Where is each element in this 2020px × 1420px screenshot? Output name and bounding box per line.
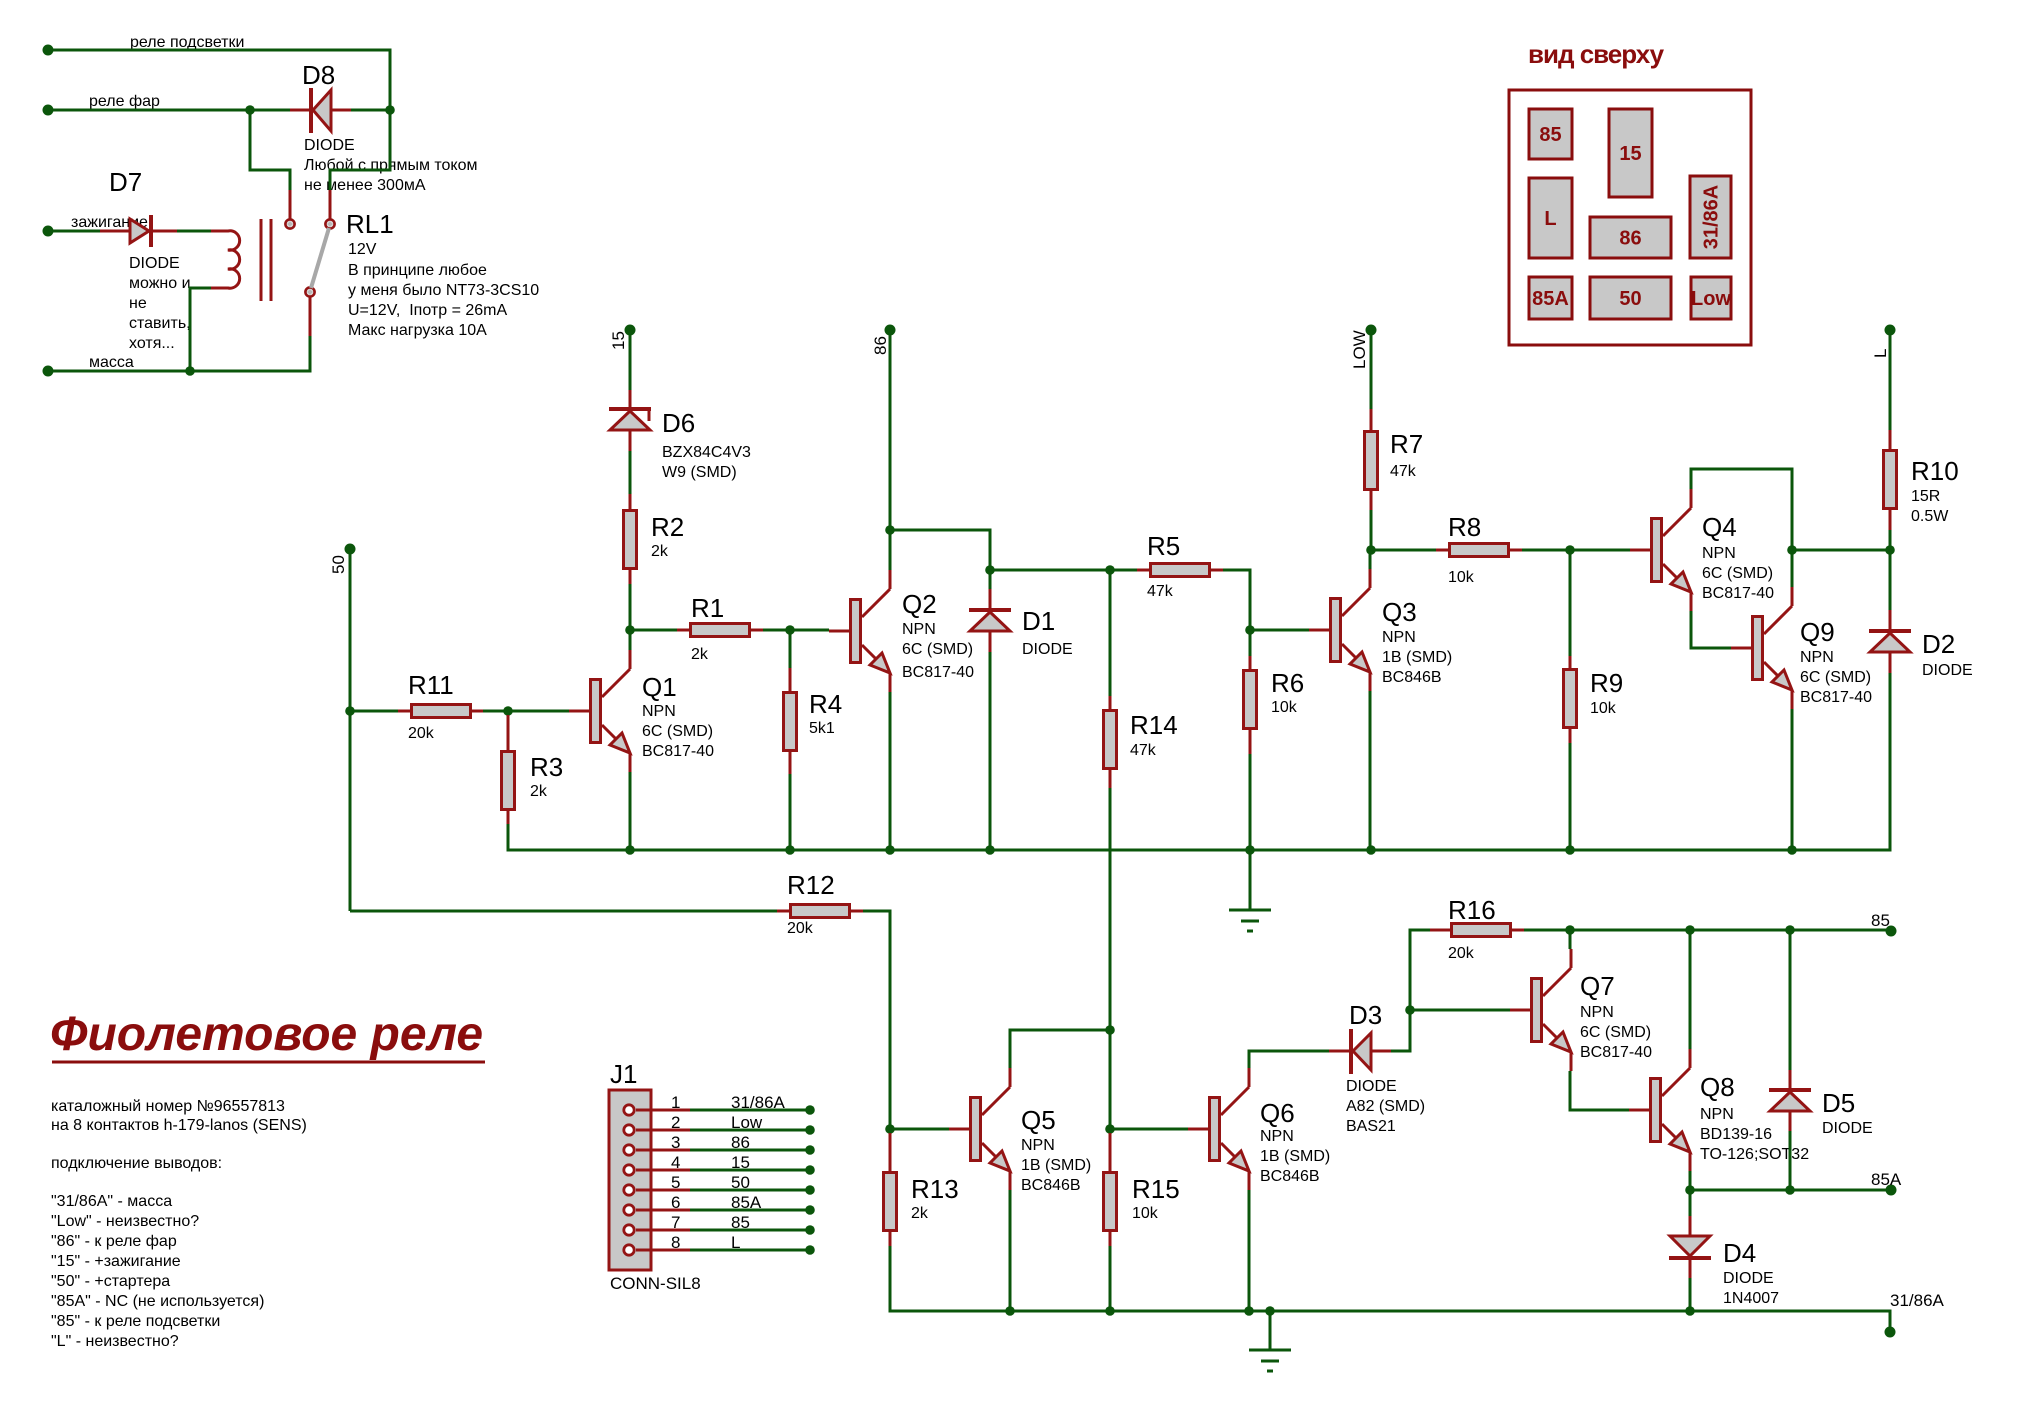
svg-text:D1: D1 [1022,606,1055,636]
svg-text:DIODE: DIODE [304,137,355,154]
node junction R2/R1/Q1-collector [625,625,635,635]
svg-text:"15" - +зажигание: "15" - +зажигание [51,1253,181,1270]
svg-text:BC846B: BC846B [1382,669,1442,686]
wire Q5 emitter to rail [1009,1190,1012,1311]
svg-text:NPN: NPN [642,703,676,720]
svg-text:6C (SMD): 6C (SMD) [1800,669,1871,686]
node junction gnd2 rail [1265,1306,1275,1316]
node junction R15/Q6-base [1105,1124,1115,1134]
resistor R8 [1448,512,1509,586]
svg-text:4: 4 [671,1153,680,1172]
svg-text:3: 3 [671,1133,680,1152]
svg-text:J1: J1 [610,1059,637,1089]
resistor R16 [1448,895,1511,962]
node junction 50/R11 [345,706,355,716]
wire 50 to R11 [350,710,398,713]
relay RL1 [211,209,539,339]
wire Q2 collector to D1 node [890,530,990,570]
wire R5 right lead [1211,569,1223,572]
node net 85A terminal [1886,1185,1897,1196]
transistor Q8 [1629,1049,1809,1171]
wire R7 top lead [1370,409,1373,430]
svg-text:A82 (SMD): A82 (SMD) [1346,1098,1425,1115]
transistor Q9 [1731,587,1872,709]
svg-text:R5: R5 [1147,531,1180,561]
svg-text:5: 5 [671,1173,680,1192]
svg-text:47k: 47k [1130,742,1157,759]
wire node to Q5 base [890,1128,949,1131]
connector J1 pin 5 lead [636,1189,690,1192]
svg-text:86: 86 [1619,228,1641,250]
svg-text:Q7: Q7 [1580,971,1615,1001]
wire R8 to Q4 node [1522,549,1570,552]
diode D2 [1869,629,1973,679]
wire Q4 node to R10 node [1792,549,1890,552]
relay RL1 contact pin right [329,190,332,219]
wire R15 top lead [1109,1133,1112,1171]
node net LOW terminal [1366,325,1377,336]
svg-text:6: 6 [671,1193,680,1212]
svg-text:NPN: NPN [1702,545,1736,562]
wire D1 top lead [989,589,992,608]
svg-text:D4: D4 [1723,1238,1756,1268]
svg-text:Фиолетовое реле: Фиолетовое реле [50,1008,483,1061]
svg-text:каталожный номер №96557813: каталожный номер №96557813 [51,1098,285,1115]
svg-text:1B (SMD): 1B (SMD) [1021,1157,1091,1174]
resistor R9 [1564,668,1624,728]
node J1 pin 3 end [805,1145,815,1155]
resistor R7 [1365,429,1424,490]
wire D6 anode lead [629,390,632,408]
svg-text:хотя...: хотя... [129,335,175,352]
wire gnd1 stub [1249,850,1252,910]
wire net LOW stub [1370,335,1373,409]
wire R13 bottom lead [889,1232,892,1246]
svg-text:Q1: Q1 [642,672,677,702]
svg-text:6C (SMD): 6C (SMD) [1702,565,1773,582]
svg-text:Q5: Q5 [1021,1105,1056,1135]
svg-text:NPN: NPN [1382,629,1416,646]
wire R14 top net [1109,570,1112,696]
node junction Q5-emitter rail [1005,1306,1015,1316]
node J1 pin 7 end [805,1225,815,1235]
diode D8 [290,60,478,194]
wire 31/86A rail [1010,1311,1890,1332]
wire R6 bottom lead [1249,730,1252,754]
wire D1 bottom lead [989,631,992,652]
wire R14 top lead [1109,696,1112,709]
node реле фар terminal [43,105,54,116]
diode D4 [1669,1236,1779,1307]
wire D4 to bottom rail [1689,1278,1692,1311]
node junction R15 rail [1105,1306,1115,1316]
wire R12 left lead [777,910,789,913]
node junction Q9-emitter rail [1787,845,1797,855]
svg-text:NPN: NPN [1580,1004,1614,1021]
wire 85A net [1690,1189,1891,1192]
wire R16 to 85 net [1524,929,1890,932]
svg-text:R2: R2 [651,512,684,542]
ground GND2 [1249,1350,1291,1371]
svg-text:8: 8 [671,1233,680,1252]
transistor Q5 [949,1068,1091,1194]
wire Q2 emitter to rail [889,692,892,850]
node J1 pin 4 end [805,1165,815,1175]
diode D7 [100,167,191,352]
wire D1 node stub [989,570,992,589]
svg-text:W9 (SMD): W9 (SMD) [662,464,737,481]
svg-text:не менее 300мА: не менее 300мА [304,177,426,194]
resistor R10 [1884,451,1959,509]
svg-text:NPN: NPN [902,621,936,638]
diode D1 [969,606,1073,658]
svg-text:R6: R6 [1271,668,1304,698]
svg-text:Q4: Q4 [1702,512,1737,542]
wire Q5 collector net [1010,1030,1110,1068]
diode D6 zener [609,408,751,481]
wire node to D2 [1889,550,1892,610]
wire R6 top lead [1249,656,1252,669]
svg-text:BD139-16: BD139-16 [1700,1126,1772,1143]
wire relay NC contact feed [250,110,290,190]
diode D5 [1769,1088,1873,1137]
svg-text:R14: R14 [1130,710,1178,740]
wire D5 top net [1789,930,1792,1070]
wire R4 to rail [789,774,792,850]
wire реле фар to D8 [48,109,290,112]
svg-text:R11: R11 [408,670,454,700]
svg-text:R10: R10 [1911,456,1959,486]
resistor R2 [624,511,685,569]
svg-text:0.5W: 0.5W [1911,508,1949,525]
wire R6 to rail [1249,754,1252,850]
connector J1 pin 4 lead [636,1169,690,1172]
node junction R5/R6/Q3-base [1245,625,1255,635]
svg-text:"L" - неизвестно?: "L" - неизвестно? [51,1333,179,1350]
node junction Q3/R7/R8 [1366,545,1376,555]
wire R8 left lead [1436,549,1448,552]
wire node to Q3 base [1250,629,1309,632]
svg-text:D8: D8 [302,60,335,90]
node junction R16/Q7-collector [1565,925,1575,935]
node net 85 terminal [1886,926,1897,937]
node junction R10/D2 [1885,545,1895,555]
node junction coil/масса [185,366,195,376]
svg-text:R9: R9 [1590,668,1623,698]
svg-text:DIODE: DIODE [1346,1078,1397,1095]
svg-text:на 8 контактов h-179-lanos (SE: на 8 контактов h-179-lanos (SENS) [51,1117,307,1134]
wire Q3 emitter to rail [1369,691,1372,850]
wire J1 pin 6 net [690,1209,810,1212]
resistor R15 [1104,1173,1180,1231]
wire R11 right lead [471,710,483,713]
node J1 pin 8 end [805,1245,815,1255]
svg-text:BC817-40: BC817-40 [1580,1044,1652,1061]
wire Q4 emitter to Q9 base [1691,611,1731,648]
ground GND1 [1229,910,1271,931]
wire D8 cathode to corner [351,109,390,112]
svg-text:реле подсветки: реле подсветки [130,34,244,51]
svg-text:DIODE: DIODE [1022,641,1073,658]
svg-text:10k: 10k [1132,1205,1159,1222]
svg-text:BC846B: BC846B [1021,1177,1081,1194]
svg-text:масса: масса [89,354,134,371]
svg-text:85A: 85A [1532,288,1569,310]
wire R12 right lead [851,910,863,913]
node junction D3/R16/Q7-base [1405,1005,1415,1015]
connector J1 pin 3 lead [636,1149,690,1152]
wire R1 right lead [751,629,763,632]
wire Q7 collector net [1569,930,1572,949]
svg-text:LOW: LOW [1350,330,1369,369]
svg-text:12V: 12V [348,241,377,258]
svg-text:D3: D3 [1349,1000,1382,1030]
connector J1 pin 2 lead [636,1129,690,1132]
svg-text:DIODE: DIODE [1822,1120,1873,1137]
node net 86 terminal [885,325,896,336]
resistor R12 [787,870,850,937]
svg-text:20k: 20k [787,920,814,937]
resistor R1 [691,593,750,663]
wire J1 pin 7 net [690,1229,810,1232]
connector top view (вид сверху) [1509,39,1751,345]
wire node to R6 [1249,630,1252,656]
wire node to R4 [789,630,792,668]
node net 15 terminal [625,325,636,336]
svg-text:85A: 85A [731,1193,762,1212]
wire D5 top lead [1789,1070,1792,1088]
wire net 50 stub [349,554,352,711]
svg-text:"85" - к реле подсветки: "85" - к реле подсветки [51,1313,220,1330]
svg-text:10k: 10k [1448,569,1475,586]
wire J1 pin 5 net [690,1189,810,1192]
wire R16 left lead [1430,929,1450,932]
svg-text:DIODE: DIODE [1723,1270,1774,1287]
diode D3 [1329,1000,1425,1135]
wire R4 top lead [789,668,792,691]
svg-text:В принципе любое: В принципе любое [348,262,487,279]
node junction R12/R13/Q5-base [885,1124,895,1134]
wire R5 left lead [1137,569,1149,572]
transistor Q2 [829,570,974,692]
wire net L to R10 [1889,409,1892,430]
node junction D5 85 net [1785,925,1795,935]
svg-text:15: 15 [731,1153,750,1172]
title Фиолетовое реле [50,1008,485,1062]
wire R16 right lead [1512,929,1524,932]
svg-text:86: 86 [871,336,890,355]
node junction R9 rail [1565,845,1575,855]
wire node to R8 [1371,549,1436,552]
wire 50 to R12 [350,910,777,913]
svg-text:D5: D5 [1822,1088,1855,1118]
wire D1 to rail [989,652,992,850]
svg-text:BC817-40: BC817-40 [902,664,974,681]
wire net 15 stub [629,335,632,390]
wire D5 to 85A [1789,1131,1792,1190]
node junction D4 bottom rail [1685,1306,1695,1316]
node зажигание terminal [43,226,54,237]
resistor R3 [502,752,564,810]
wire R2 bottom lead [629,570,632,584]
svg-text:NPN: NPN [1260,1128,1294,1145]
svg-text:ставить,: ставить, [129,315,191,332]
wire R15 to rail [1109,1246,1112,1311]
node J1 pin 6 end [805,1205,815,1215]
wire R13 to bottom rail [890,1246,1010,1311]
svg-text:R3: R3 [530,752,563,782]
node junction Q4-collector/Q9-collector [1787,545,1797,555]
wire D6 to R2 [629,451,632,494]
wire D4 top lead [1689,1216,1692,1236]
svg-text:Q9: Q9 [1800,617,1835,647]
node net L terminal [1885,325,1896,336]
node junction D1/R5 [985,565,995,575]
transistor Q4 [1630,489,1774,611]
svg-text:31/86A: 31/86A [1890,1291,1945,1310]
transistor Q3 [1309,569,1452,691]
wire node to Q4 base [1570,549,1630,552]
svg-text:Low: Low [1691,288,1731,310]
svg-text:R7: R7 [1390,429,1423,459]
svg-text:BC817-40: BC817-40 [1800,689,1872,706]
connector J1 [609,1059,701,1293]
wire Q6 collector net [1249,1051,1329,1068]
wire Q9 collector net [1791,550,1794,587]
connector J1 pin 1 lead [636,1109,690,1112]
wire node to Q2 base [790,629,829,632]
node junction R1/R4/Q2-base [785,625,795,635]
wire D6 cathode lead [629,430,632,451]
svg-text:NPN: NPN [1700,1106,1734,1123]
wire Q8 emitter to 85A [1689,1171,1692,1190]
svg-text:вид сверху: вид сверху [1528,39,1665,69]
node junction D8 / подсветка [385,105,395,115]
wire D4 bottom lead [1689,1258,1692,1278]
wire R2 to node R1 [629,584,632,630]
svg-text:BAS21: BAS21 [1346,1118,1396,1135]
wire R14 to lower node [1109,788,1112,1030]
svg-text:2k: 2k [691,646,709,663]
wire R3 bottom lead [507,811,510,824]
node junction Q2-emitter rail [885,845,895,855]
svg-text:50: 50 [1619,288,1641,310]
wire Q1 emitter to rail [629,772,632,850]
wire Q3 collector net [1369,550,1372,569]
wire node to Q6 base [1110,1128,1188,1131]
wire J1 pin 1 net [690,1109,810,1112]
wire node to R9 [1569,550,1572,656]
svg-text:6C (SMD): 6C (SMD) [902,641,973,658]
svg-text:D6: D6 [662,408,695,438]
svg-text:Q6: Q6 [1260,1098,1295,1128]
svg-text:реле фар: реле фар [89,93,160,110]
relay RL1 contact pin left [289,190,292,219]
wire R9 top lead [1569,656,1572,668]
wire Q9 emitter to rail [1791,709,1794,850]
node junction R8/R9/Q4-base [1565,545,1575,555]
svg-text:CONN-SIL8: CONN-SIL8 [610,1274,701,1293]
svg-text:не: не [129,295,147,312]
svg-text:R13: R13 [911,1174,959,1204]
wire D2 bottom lead [1889,652,1892,673]
wire R12 to Q5 node [863,911,890,1129]
node net 50 terminal [345,544,356,555]
wire coil return to масса [190,288,211,371]
svg-text:47k: 47k [1390,463,1417,480]
node junction R11/R3/Q1-base [503,706,513,716]
svg-text:15R: 15R [1911,488,1940,505]
wire R1 to node R4 [763,629,790,632]
wire R1 left lead [677,629,689,632]
svg-text:50: 50 [731,1173,750,1192]
transistor Q7 [1510,949,1652,1071]
text pin description [51,1098,307,1350]
svg-text:R1: R1 [691,593,724,623]
wire D2 top lead [1889,610,1892,629]
svg-text:подключение выводов:: подключение выводов: [51,1155,222,1172]
svg-text:Low: Low [731,1113,763,1132]
svg-text:U=12V, Iпотр = 26mA: U=12V, Iпотр = 26mA [348,302,507,319]
resistor R6 [1244,668,1305,729]
wire R9 bottom lead [1569,729,1572,743]
wire J1 pin 4 net [690,1169,810,1172]
wire relay NO contact feed [330,110,390,190]
wire Q2 collector net [889,530,892,570]
svg-text:31/86A: 31/86A [731,1093,786,1112]
svg-text:BC846B: BC846B [1260,1168,1320,1185]
svg-text:R8: R8 [1448,512,1481,542]
svg-text:"Low" - неизвестно?: "Low" - неизвестно? [51,1213,199,1230]
svg-text:RL1: RL1 [346,209,394,239]
svg-text:L: L [731,1233,740,1252]
node junction Q8-collector 85 [1685,925,1695,935]
svg-text:85A: 85A [1871,1170,1902,1189]
wire net 86 stub [889,335,892,569]
svg-text:2k: 2k [651,543,669,560]
wire R15 bottom lead [1109,1232,1112,1246]
transistor Q6 [1188,1068,1330,1190]
svg-text:85: 85 [731,1213,750,1232]
wire D2 to rail end [1792,673,1890,850]
svg-text:10k: 10k [1590,700,1617,717]
wire J1 pin 3 net [690,1149,810,1152]
svg-text:R4: R4 [809,689,842,719]
svg-text:2k: 2k [530,783,548,800]
wire R10 top lead [1889,430,1892,449]
svg-text:20k: 20k [408,725,435,742]
svg-text:10k: 10k [1271,699,1298,716]
svg-text:85: 85 [1539,124,1561,146]
node J1 pin 2 end [805,1125,815,1135]
connector J1 pin 8 lead [636,1249,690,1252]
svg-text:BZX84C4V3: BZX84C4V3 [662,444,751,461]
wire R9 to rail [1569,743,1572,850]
wire R3 top lead [507,715,510,750]
svg-text:"85A" - NC (не используется): "85A" - NC (не используется) [51,1293,264,1310]
svg-text:DIODE: DIODE [1922,662,1973,679]
wire R14-R15 net [1109,1030,1112,1129]
svg-text:1B (SMD): 1B (SMD) [1260,1148,1330,1165]
node J1 pin 1 end [805,1105,815,1115]
svg-text:L: L [1544,208,1556,230]
wire D7 to coil [177,230,211,233]
node junction Q6-emitter rail [1244,1306,1254,1316]
svg-text:"86" - к реле фар: "86" - к реле фар [51,1233,177,1250]
wire J1 pin 8 net [690,1249,810,1252]
node junction R6 rail / gnd [1245,845,1255,855]
wire реле подсветки net [48,50,390,110]
